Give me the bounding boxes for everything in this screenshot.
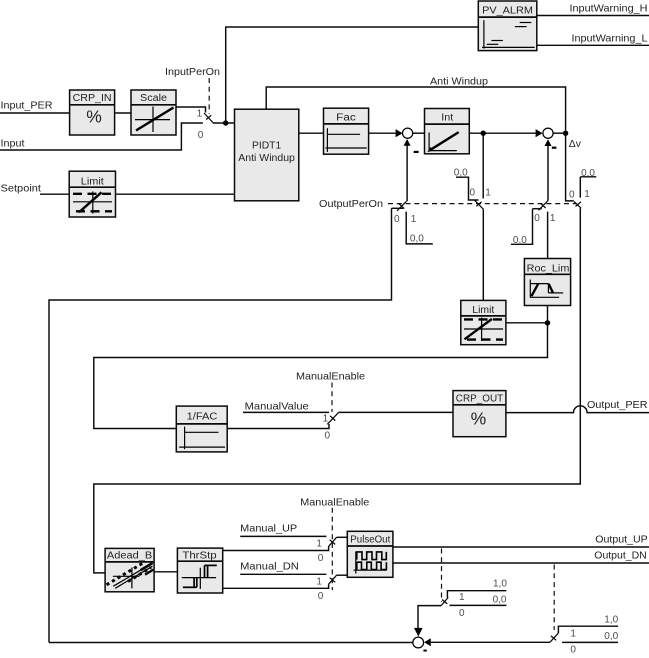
switch SW6 manual up select (316, 537, 336, 564)
wire Int to summer2 (469, 132, 536, 134)
svg-text:1,0: 1,0 (604, 615, 618, 626)
svg-text:ManualValue: ManualValue (245, 402, 309, 413)
wire CRP_OUT to Output_PER with hop (506, 406, 649, 413)
node minus sign S3 (423, 650, 426, 652)
node InputWarning_H (570, 4, 648, 15)
switch SW9 dn-count select (550, 615, 619, 656)
block Fac (324, 108, 369, 154)
svg-text:0: 0 (470, 187, 476, 198)
svg-text:Anti Windup: Anti Windup (430, 77, 488, 88)
wire Output_DN (393, 562, 649, 564)
wire CRP_IN to Scale (115, 112, 131, 114)
svg-text:Roc_Lim: Roc_Lim (527, 263, 570, 274)
node ManualEnable label 2 (300, 498, 369, 509)
wire dashed control from Output_UP (441, 549, 443, 603)
node ManualEnable label 1 (296, 372, 365, 383)
wire S2 minus stem (547, 145, 549, 200)
node arrow into S3 top (414, 628, 423, 637)
wire OutputPerOn dashed control line (388, 203, 576, 205)
summer S3 (413, 637, 424, 648)
svg-text:0,0: 0,0 (513, 235, 527, 246)
switch SW4 right (dv output select) (94, 133, 597, 573)
node Output_PER (587, 400, 648, 411)
svg-text:PulseOut: PulseOut (350, 534, 390, 545)
wire Roc_Lim bottom to junction (547, 306, 549, 323)
block CRP_IN (70, 90, 115, 135)
wire S1 to Int (413, 132, 425, 134)
node Input (1, 138, 25, 149)
svg-text:Setpoint: Setpoint (1, 183, 42, 194)
svg-text:0: 0 (318, 591, 324, 602)
block PV_ALRM (478, 1, 537, 51)
node minus sign S1 (414, 151, 419, 153)
node arrow into summer1 (396, 129, 403, 137)
svg-text:%: % (86, 107, 102, 127)
node junction below Roc_Lim (545, 320, 550, 325)
svg-text:1: 1 (316, 539, 322, 550)
svg-text:OutputPerOn: OutputPerOn (319, 199, 383, 210)
wire Manual_DN 1-input (240, 573, 326, 575)
wire Manual_UP 1-input (240, 535, 326, 537)
wire Fac to summer1 (369, 132, 396, 134)
wire Limit2 out to junction (506, 322, 548, 324)
summer S2 (543, 128, 553, 138)
node junction dv (563, 131, 568, 136)
svg-text:Output_PER: Output_PER (587, 400, 648, 411)
node arrow into S3 right (424, 638, 431, 646)
block 1/FAC (176, 406, 227, 452)
summer S1 (403, 128, 413, 138)
wire Anti Windup feedback top (266, 87, 565, 131)
svg-text:1,0: 1,0 (493, 579, 507, 590)
node Anti Windup label (430, 77, 488, 88)
svg-text:1: 1 (197, 109, 203, 120)
svg-text:1: 1 (316, 577, 322, 588)
wire SW7 out to PulseOut (337, 574, 348, 576)
node minus sign S2 (552, 147, 557, 149)
svg-text:0: 0 (394, 214, 400, 225)
svg-text:Δv: Δv (569, 139, 582, 150)
wire Adead_B to ThrStp (154, 571, 177, 573)
node Output_UP (595, 535, 647, 546)
switch SW5 manual value select (323, 412, 339, 441)
wire PV branch up to PV_ALRM (226, 27, 479, 123)
wire ManualEnable dashed 1 (331, 383, 333, 413)
wire Limit to PIDT1 (116, 193, 235, 195)
svg-text:Adead_B: Adead_B (107, 551, 153, 562)
switch SW7 manual dn select (316, 575, 336, 602)
node Output_DN (594, 550, 646, 561)
block PIDT1 Anti Windup (235, 109, 299, 201)
node InputWarning_L (572, 34, 648, 45)
block Int (425, 109, 470, 154)
node minus arrow into S2 (545, 139, 552, 146)
svg-text:ThrStp: ThrStp (182, 550, 217, 561)
switch SW1 below S1 (anti-windup select) (392, 201, 433, 244)
node Input_PER (1, 101, 54, 112)
wire SW6 out to PulseOut (337, 536, 348, 538)
node dv label (569, 139, 582, 150)
svg-text:Manual_UP: Manual_UP (240, 524, 297, 535)
wire Setpoint to Limit (40, 193, 69, 195)
svg-text:1: 1 (459, 592, 465, 603)
wire switch out to CRP_OUT (339, 411, 453, 413)
svg-text:Input_PER: Input_PER (1, 101, 54, 112)
svg-text:1/FAC: 1/FAC (187, 412, 218, 423)
node junction after Int (481, 131, 486, 136)
block Limit (setpoint limiter) (69, 171, 115, 217)
switch SW3 below S2 (minus input select) (511, 201, 556, 259)
wire ThrStp dn-out to 0-input (223, 585, 329, 589)
svg-text:1: 1 (411, 214, 417, 225)
node Manual_DN (240, 562, 299, 573)
svg-text:Limit: Limit (472, 305, 494, 316)
wire Output_UP (393, 546, 649, 548)
svg-text:InputWarning_L: InputWarning_L (572, 34, 648, 45)
svg-text:1: 1 (485, 187, 491, 198)
block Roc_Lim (524, 259, 570, 306)
svg-text:Scale: Scale (140, 93, 167, 104)
switch SW2 (Int path select) (454, 133, 492, 300)
svg-text:Fac: Fac (336, 112, 356, 123)
svg-text:PV_ALRM: PV_ALRM (482, 6, 533, 17)
wire 1/FAC out to manual switch 0-input (227, 424, 329, 429)
node arrow into summer2 (536, 129, 543, 137)
wire Input to switch 0-input (0, 123, 203, 150)
wire InputPerOn dashed control (208, 78, 210, 114)
svg-text:0: 0 (569, 190, 575, 201)
block ThrStp (177, 548, 222, 593)
wire S1 minus stem (406, 145, 408, 201)
node minus arrow into S1 (404, 139, 411, 146)
svg-text:0,0: 0,0 (410, 233, 424, 244)
wire dashed control from Output_DN (553, 565, 555, 631)
svg-text:Limit: Limit (81, 176, 104, 187)
wire Input_PER to CRP_IN (0, 112, 70, 114)
svg-text:0,0: 0,0 (493, 594, 507, 605)
block CRP_OUT (453, 391, 506, 437)
svg-text:1: 1 (584, 189, 590, 200)
wire SW8 out down to S3 (418, 606, 441, 629)
svg-text:Output_DN: Output_DN (594, 550, 646, 561)
wire Scale out to switch 1-input (176, 107, 206, 113)
svg-text:0: 0 (318, 553, 324, 564)
node OutputPerOn (319, 199, 383, 210)
node ManualValue (245, 402, 309, 413)
svg-text:ManualEnable: ManualEnable (296, 372, 365, 383)
wire InputWarning_L (537, 44, 649, 46)
node Manual_UP (240, 524, 297, 535)
svg-text:0: 0 (570, 645, 576, 656)
svg-text:1: 1 (570, 628, 576, 639)
switch input selector (197, 109, 214, 142)
wire InputWarning_H (537, 15, 649, 17)
wire ManualEnable dashed 2 (331, 508, 333, 590)
svg-text:1: 1 (550, 213, 556, 224)
svg-text:CRP_IN: CRP_IN (73, 93, 112, 104)
svg-text:CRP_OUT: CRP_OUT (456, 394, 503, 405)
svg-text:0: 0 (459, 608, 465, 619)
wire SW9 out to S3 (431, 641, 550, 643)
wire PIDT1 to Fac (299, 132, 324, 134)
wire ManualValue 1-input (243, 411, 329, 413)
svg-text:Input: Input (1, 138, 25, 149)
wire ThrStp up-out to 0-input (223, 547, 329, 551)
svg-text:Anti Windup: Anti Windup (238, 153, 295, 164)
svg-text:PIDT1: PIDT1 (252, 140, 281, 151)
block PulseOut (347, 531, 393, 577)
node junction PV (223, 120, 228, 125)
svg-text:0: 0 (534, 213, 540, 224)
svg-text:0,0: 0,0 (604, 631, 618, 642)
svg-text:Output_UP: Output_UP (595, 535, 647, 546)
block Limit 2 (output limiter) (461, 300, 506, 344)
wire switch to PIDT1 (213, 122, 235, 124)
svg-text:1: 1 (323, 414, 329, 425)
svg-text:ManualEnable: ManualEnable (300, 498, 369, 509)
block Scale (131, 90, 176, 135)
block Adead_B (105, 548, 154, 591)
svg-text:Manual_DN: Manual_DN (240, 562, 299, 573)
svg-text:InputPerOn: InputPerOn (165, 67, 220, 78)
node InputPerOn (165, 67, 220, 78)
svg-text:%: % (471, 409, 487, 429)
wire S2 to dv node (553, 132, 566, 134)
wire S3 out left to feedback riser (49, 642, 413, 644)
svg-text:0: 0 (198, 130, 204, 141)
switch SW8 up-count select (441, 579, 507, 620)
svg-text:InputWarning_H: InputWarning_H (570, 4, 648, 15)
wire junction down-left to 1/FAC input (94, 323, 548, 429)
node Setpoint (1, 183, 42, 194)
wire SW1 0-input long feedback from bottom (49, 208, 392, 642)
svg-text:0: 0 (325, 431, 331, 442)
svg-text:Int: Int (441, 113, 453, 124)
